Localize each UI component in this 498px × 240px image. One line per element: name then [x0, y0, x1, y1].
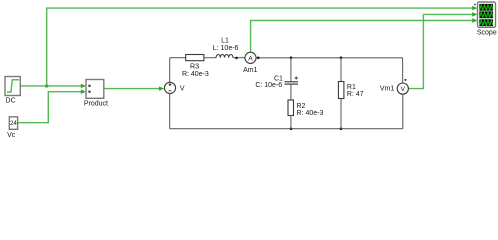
svg-text:R3: R3: [190, 64, 199, 71]
block Vc constant 24: [9, 117, 17, 130]
step curve inside DC block: [7, 80, 19, 92]
svg-text:R1: R1: [347, 84, 356, 91]
wire: Product output to controlled voltage source V: [104, 88, 160, 90]
capacitor C1 bottom plate: [285, 83, 299, 85]
scope screen 2: [479, 11, 493, 18]
svg-text:R2: R2: [297, 103, 306, 110]
wire: C1 to R2: [290, 85, 292, 100]
wire: Am1 measurement to Scope input 3: [251, 21, 473, 52]
node dot top rail at R1 branch: [340, 56, 343, 59]
scope waveform 3: [480, 20, 493, 25]
svg-text:24: 24: [10, 120, 17, 127]
node dot at Am1 + terminal: [257, 57, 260, 60]
multiply mark input 1: [88, 85, 90, 87]
svg-text:Vc: Vc: [7, 132, 16, 139]
svg-text:Scope: Scope: [477, 29, 497, 36]
node dot bottom rail at R1 branch: [340, 127, 343, 130]
svg-text:L1: L1: [221, 37, 229, 44]
arrowhead into Product input 1: [81, 84, 86, 88]
scope screen 3: [479, 19, 493, 26]
arrowhead into Product input 2: [81, 90, 86, 94]
node junction on DC wire: [45, 84, 48, 87]
wire: L1 to Am1: [233, 57, 245, 59]
block Scope: [478, 2, 496, 27]
inductor L1 coil: [216, 54, 233, 57]
block Product (multiplier): [86, 80, 104, 99]
svg-text:A: A: [248, 55, 253, 62]
svg-text:Vm1: Vm1: [380, 86, 395, 93]
svg-text:R: 40e-3: R: 40e-3: [297, 110, 324, 117]
svg-text:Product: Product: [84, 100, 108, 107]
wire: top rail from Am1 to Vm1 corner: [256, 57, 403, 59]
wire: Vm1 bottom lead: [402, 94, 404, 129]
minus mark in V source: [169, 90, 172, 92]
wire: V source top lead: [169, 58, 171, 83]
scope waveform 2: [480, 13, 493, 18]
wire: top rail from V source to R3: [170, 57, 186, 59]
arrowhead into Scope input 2: [472, 12, 477, 16]
wire: top rail corner down to Vm1: [402, 58, 404, 83]
wire: DC signal up and across to Scope input 1: [47, 8, 473, 86]
voltage source V circle: [164, 82, 175, 93]
capacitor C1 top plate: [285, 81, 299, 83]
svg-text:R: 40e-3: R: 40e-3: [182, 71, 209, 78]
wire: bottom rail: [170, 128, 403, 130]
wire: DC output to Product input 1: [20, 85, 81, 87]
svg-text:V: V: [180, 85, 185, 92]
svg-text:C: 10e-6: C: 10e-6: [255, 82, 282, 89]
wire: V source bottom lead: [169, 94, 171, 129]
block DC (duty cycle source): [5, 77, 20, 96]
plus polarity dot of Vm1: [404, 79, 406, 81]
resistor R1 body: [338, 82, 344, 99]
node dot bottom rail at R2 branch: [290, 127, 293, 130]
arrowhead into Scope input 1: [472, 6, 477, 10]
node dot top rail at C1 branch: [290, 56, 293, 59]
wire: Vm1 measurement to Scope input 2: [409, 14, 473, 88]
wire: C1 branch top lead: [290, 58, 292, 82]
ammeter Am1: [245, 52, 256, 63]
wire: R1 to bottom rail: [340, 99, 342, 129]
resistor R2 body: [288, 100, 294, 116]
tiny marker above Scope input 1: [474, 4, 476, 6]
multiply mark input 2: [88, 91, 90, 93]
arrowhead into Scope input 3: [472, 18, 477, 22]
svg-text:DC: DC: [6, 97, 16, 104]
wire: R3 to L1: [204, 57, 216, 59]
scope waveform 1: [480, 5, 493, 10]
wire: R1 branch top lead: [340, 58, 342, 82]
svg-text:Am1: Am1: [243, 67, 258, 74]
voltmeter Vm1: [397, 83, 408, 94]
plus polarity mark of C1: [295, 77, 298, 80]
wire: Vc constant to Product input 2: [18, 92, 82, 123]
scope screen 1: [479, 4, 493, 11]
svg-text:V: V: [401, 86, 406, 93]
wire: R2 to bottom rail: [290, 116, 292, 129]
svg-text:R: 47: R: 47: [347, 91, 364, 98]
svg-text:L: 10e-6: L: 10e-6: [213, 45, 239, 52]
arrowhead into voltage source V: [159, 86, 164, 90]
resistor R3 body: [186, 55, 204, 61]
node dot after L1: [235, 57, 238, 60]
plus mark in V source: [169, 83, 172, 86]
